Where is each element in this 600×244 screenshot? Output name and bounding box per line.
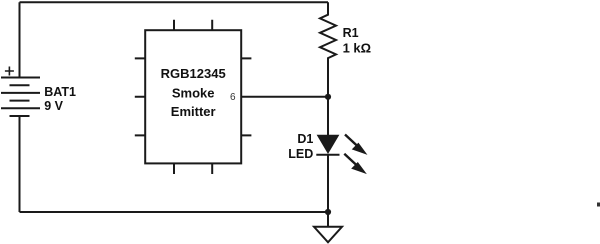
svg-text:6: 6 (230, 92, 236, 103)
svg-text:Smoke: Smoke (172, 86, 215, 101)
svg-text:LED: LED (288, 147, 313, 161)
svg-text:Emitter: Emitter (171, 104, 216, 119)
svg-text:D1: D1 (297, 132, 313, 146)
svg-text:BAT1: BAT1 (44, 85, 76, 99)
svg-text:9 V: 9 V (44, 99, 63, 113)
svg-text:R1: R1 (343, 26, 359, 40)
svg-text:1 kΩ: 1 kΩ (343, 40, 372, 55)
svg-text:RGB12345: RGB12345 (161, 66, 226, 81)
